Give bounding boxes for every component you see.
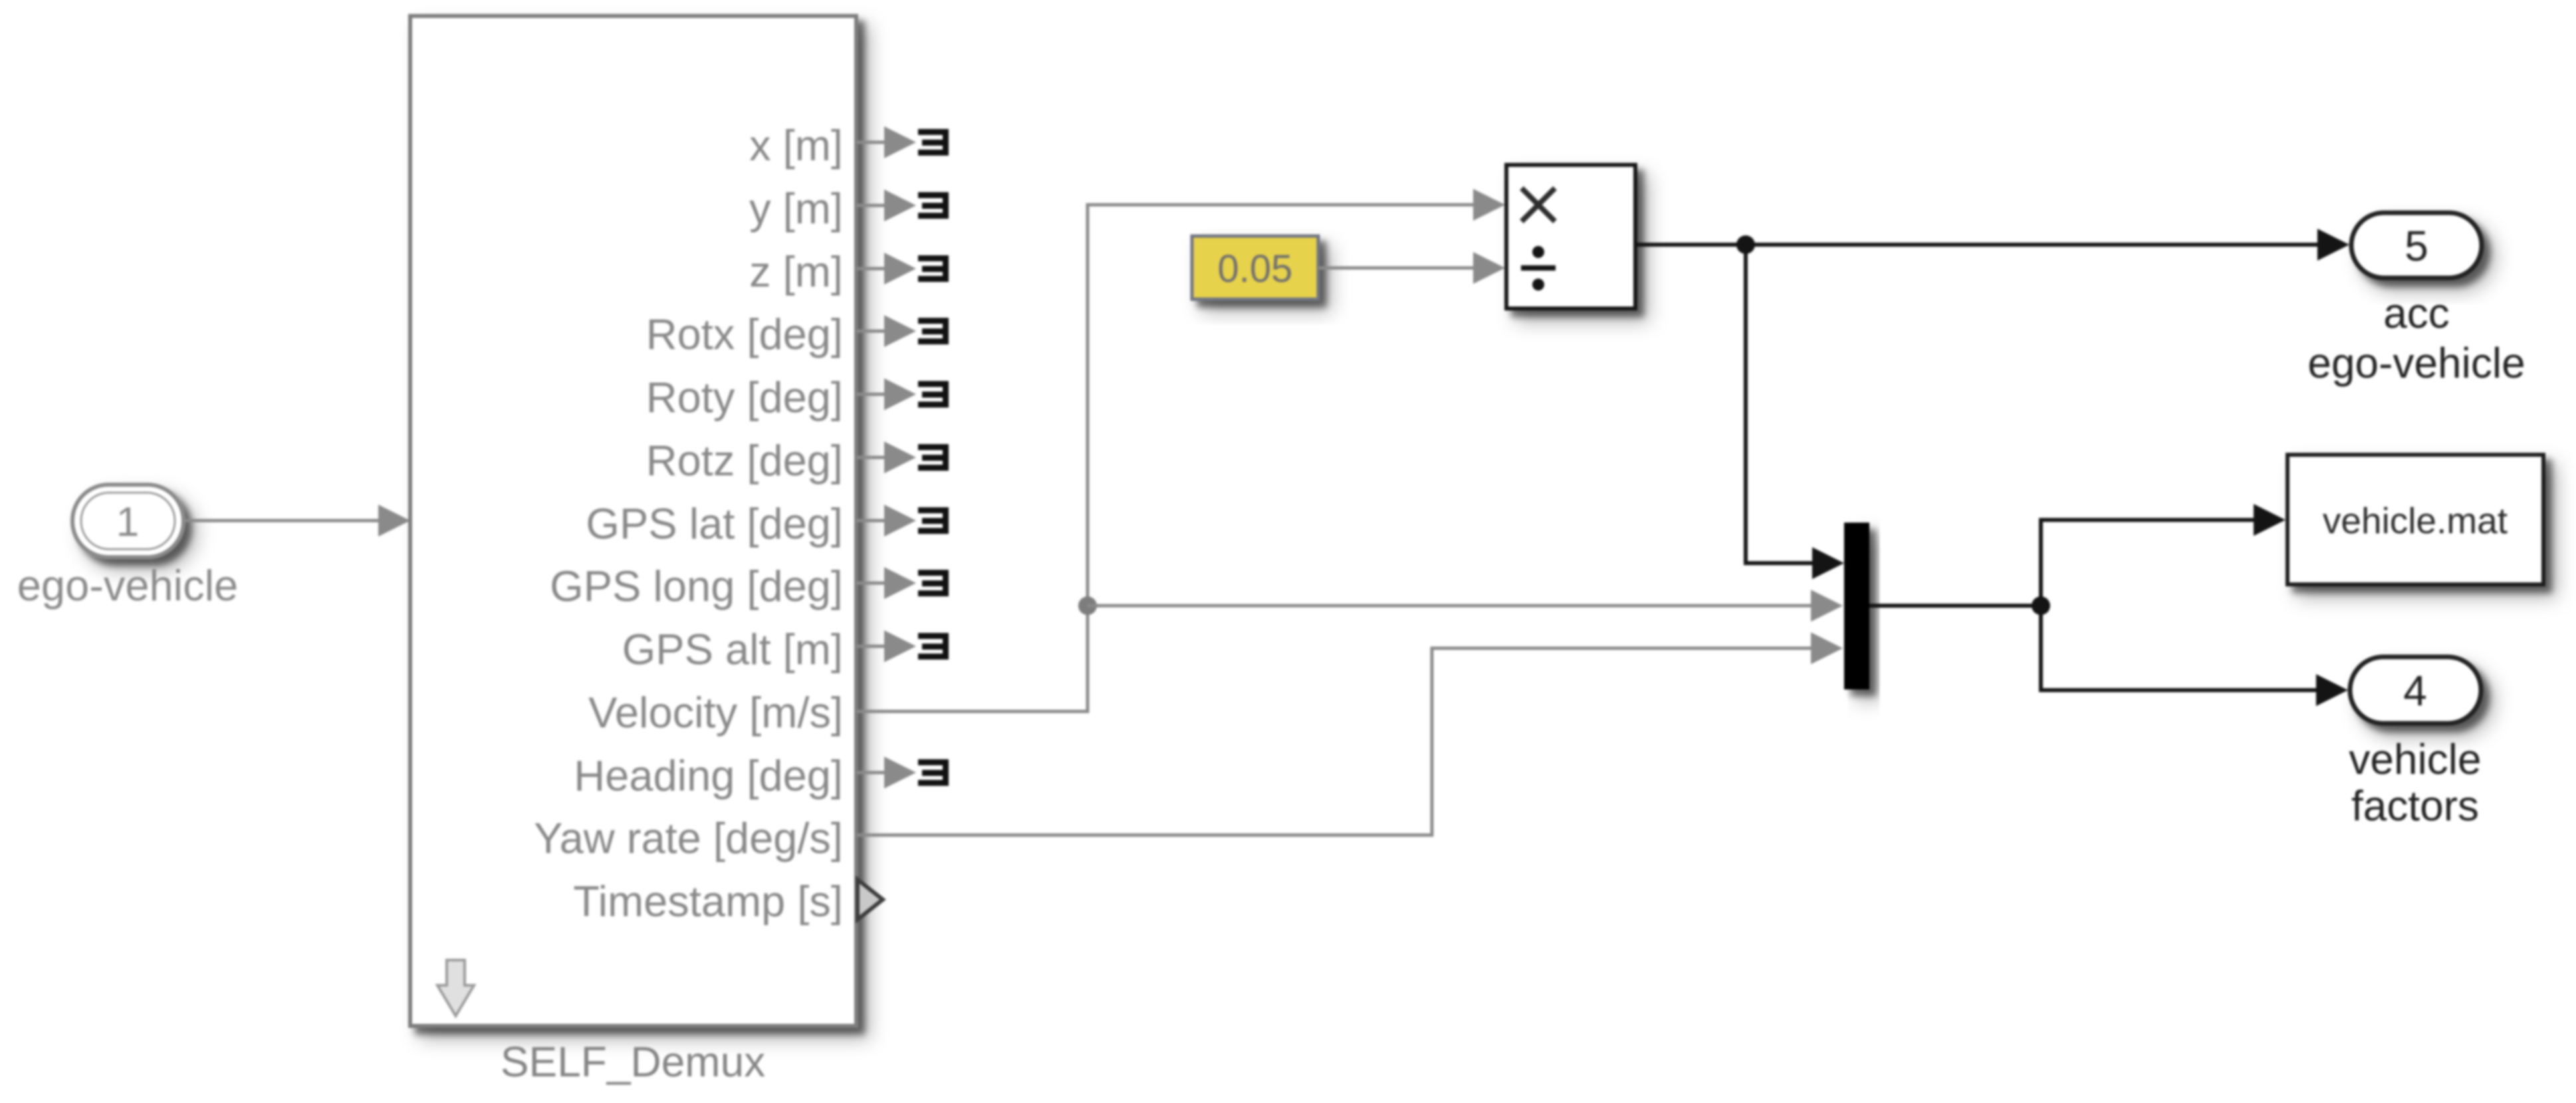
svg-text:Heading [deg]: Heading [deg] xyxy=(574,751,843,800)
svg-text:Timestamp [s]: Timestamp [s] xyxy=(573,877,843,925)
svg-text:ego-vehicle: ego-vehicle xyxy=(17,561,238,610)
constant 0.05 xyxy=(1192,236,1318,299)
svg-text:Rotz [deg]: Rotz [deg] xyxy=(646,436,843,485)
wire node down to mux input 1 xyxy=(1746,245,1844,579)
svg-text:0.05: 0.05 xyxy=(1218,247,1293,291)
svg-text:GPS alt [m]: GPS alt [m] xyxy=(622,625,843,674)
svg-text:ego-vehicle: ego-vehicle xyxy=(2307,339,2525,387)
wire inport to demux xyxy=(183,505,410,537)
node mux out xyxy=(2032,596,2050,615)
wire node to outport 4 xyxy=(2041,606,2348,706)
wire velocity branch to mux xyxy=(1088,590,1843,622)
node velocity branch xyxy=(1078,596,1097,615)
terminator for Rotx [deg] xyxy=(856,315,949,347)
wire mux out xyxy=(1869,604,2041,608)
svg-text:1: 1 xyxy=(116,499,139,545)
terminator for z [m] xyxy=(856,253,949,285)
terminator for GPS long [deg] xyxy=(856,567,949,599)
svg-text:acc: acc xyxy=(2383,289,2450,337)
wire yaw rate to mux xyxy=(856,632,1843,835)
svg-text:Yaw rate [deg/s]: Yaw rate [deg/s] xyxy=(534,814,843,862)
terminator for x [m] xyxy=(856,126,949,158)
inport 1 ego-vehicle xyxy=(72,485,183,557)
port labels xyxy=(534,121,843,925)
port Timestamp unconnected arrow xyxy=(858,880,883,919)
subsystem down-arrow icon xyxy=(437,960,474,1016)
svg-text:x [m]: x [m] xyxy=(749,121,843,170)
node on divide out xyxy=(1736,235,1755,254)
terminator for Heading [deg] xyxy=(856,757,949,789)
wire divide out to outport 5 xyxy=(1635,229,2349,261)
wire velocity xyxy=(856,189,1505,711)
svg-text:factors: factors xyxy=(2351,782,2479,830)
svg-text:4: 4 xyxy=(2403,667,2427,715)
terminator for GPS lat [deg] xyxy=(856,505,949,537)
terminator for GPS alt [m] xyxy=(856,630,949,662)
outport 4 xyxy=(2350,657,2481,723)
svg-text:vehicle: vehicle xyxy=(2349,735,2481,783)
svg-text:y [m]: y [m] xyxy=(749,184,843,233)
svg-text:SELF_Demux: SELF_Demux xyxy=(501,1038,765,1086)
svg-text:z [m]: z [m] xyxy=(749,247,843,296)
svg-text:GPS lat [deg]: GPS lat [deg] xyxy=(586,499,843,548)
divide block U1 xyxy=(1506,165,1635,308)
outport 5 xyxy=(2351,213,2482,278)
svg-text:5: 5 xyxy=(2404,222,2428,270)
terminator for Roty [deg] xyxy=(856,378,949,410)
svg-text:GPS long [deg]: GPS long [deg] xyxy=(550,562,843,610)
svg-text:vehicle.mat: vehicle.mat xyxy=(2323,500,2508,541)
svg-text:Rotx [deg]: Rotx [deg] xyxy=(646,310,843,358)
svg-text:Velocity [m/s]: Velocity [m/s] xyxy=(588,688,843,737)
wire node to vehicle.mat xyxy=(2041,504,2285,606)
mux xyxy=(1844,523,1869,689)
svg-text:Roty [deg]: Roty [deg] xyxy=(646,373,843,422)
terminator for Rotz [deg] xyxy=(856,441,949,473)
subsystem SELF_Demux xyxy=(410,16,856,1026)
wire 0.05 to divide xyxy=(1318,252,1505,284)
block vehicle.mat xyxy=(2287,455,2543,584)
terminator for y [m] xyxy=(856,189,949,221)
